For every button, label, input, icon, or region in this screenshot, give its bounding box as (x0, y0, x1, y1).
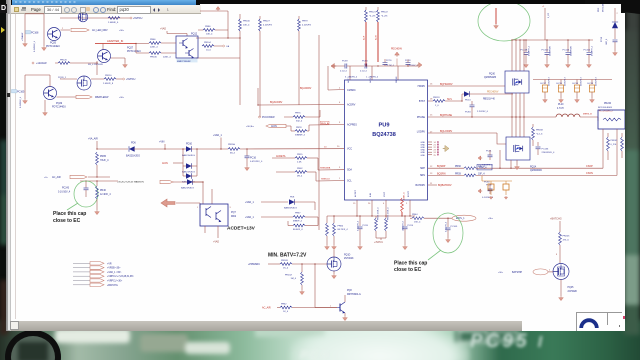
svg-text:PR110: PR110 (105, 75, 112, 77)
annotation Place this cap close to EC (394, 260, 427, 273)
ground (613, 51, 618, 56)
resistor PR76 (293, 110, 320, 123)
ground in ellipse (494, 8, 499, 29)
node +5VPCU (130, 17, 143, 20)
svg-text:QM3006D6: QM3006D6 (530, 170, 542, 172)
wire (96, 61, 97, 75)
wire CSOP (586, 129, 603, 168)
resistor PR86 (198, 11, 228, 38)
svg-text:PC16: PC16 (250, 157, 257, 160)
connector +VRPCU (73, 279, 123, 283)
capacitor PC33 (503, 181, 509, 195)
svg-text:+VAD_1: +VAD_1 (245, 201, 254, 204)
capacitor PC98 (601, 36, 618, 51)
ground (325, 236, 330, 250)
svg-text:PC30: PC30 (484, 182, 490, 184)
node ADAPTER_IN (107, 39, 123, 43)
wire (512, 117, 524, 137)
pin 18 (430, 99, 433, 101)
transistor pair PQ12 (176, 32, 198, 62)
svg-text:MER3_B: MER3_B (583, 114, 592, 116)
ground (43, 111, 48, 116)
ground (300, 290, 305, 295)
"D" watermark top-left (0, 4, 7, 13)
svg-text:PC243: PC243 (62, 188, 70, 190)
svg-text:0.1UF/V_4: 0.1UF/V_4 (592, 45, 594, 56)
svg-text:<30>: <30> (119, 96, 125, 99)
svg-text:PR168: PR168 (536, 130, 543, 132)
annotation ACDET=13V (227, 226, 256, 232)
node +PRWSRC (248, 263, 280, 266)
power arrow (216, 7, 220, 11)
svg-text:PQ8: PQ8 (347, 290, 352, 292)
svg-text:BQLODRV: BQLODRV (440, 130, 453, 133)
wire ACN (375, 22, 379, 62)
svg-text:SDA: SDA (347, 169, 352, 172)
wire BQSRP (428, 165, 603, 169)
node +VAD (213, 241, 219, 244)
svg-text:*2.2_6: *2.2_6 (536, 133, 543, 135)
resistor PR121 (365, 7, 377, 22)
wire (111, 58, 126, 63)
wire (44, 100, 46, 111)
svg-text:PC165: PC165 (17, 91, 25, 94)
svg-text:close to EC: close to EC (394, 267, 422, 273)
pin 11 (430, 183, 433, 185)
svg-text:2: 2 (617, 13, 619, 15)
resistor PR107 (285, 264, 304, 290)
svg-text:PC94: PC94 (465, 112, 471, 114)
svg-text:PC124: PC124 (563, 49, 570, 51)
svg-text:PC76: PC76 (386, 60, 392, 62)
svg-text:PQ1D: PQ1D (344, 254, 351, 256)
svg-text:+VIN: +VIN (159, 141, 165, 144)
svg-text:ACIN: ACIN (162, 162, 168, 165)
node PCCONSW (259, 116, 294, 119)
wire (61, 28, 71, 30)
svg-text:10K_4: 10K_4 (243, 24, 250, 26)
wire (202, 181, 212, 204)
diode PD3 (598, 3, 619, 39)
svg-text:CSON: CSON (586, 172, 593, 175)
wire (499, 150, 500, 169)
svg-text:MIN. BATV=7.2V: MIN. BATV=7.2V (268, 252, 307, 258)
node ACIN (162, 162, 183, 165)
wire (57, 96, 77, 98)
wire ACP (363, 22, 367, 66)
svg-text:25: 25 (434, 155, 437, 157)
svg-text:PR104: PR104 (204, 42, 211, 44)
svg-text:2.2U25V_0: 2.2U25V_0 (477, 111, 489, 113)
svg-text:4.22K/F4: 4.22K/F4 (263, 24, 273, 26)
svg-text:+VRPCU <30>: +VRPCU <30> (107, 280, 123, 283)
svg-text:1: 1 (330, 305, 332, 307)
capacitor EC15 (557, 76, 567, 98)
svg-text:220UF6.3: 220UF6.3 (581, 76, 583, 86)
svg-text:PC101: PC101 (584, 49, 591, 51)
svg-text:1MF50V_4: 1MF50V_4 (403, 220, 405, 231)
fan/coil black ring bottom-left of photo (5, 330, 61, 360)
svg-text:86.7K/F_4: 86.7K/F_4 (338, 229, 349, 231)
resistor PR58 (108, 17, 120, 24)
svg-text:PR22 100K_4: PR22 100K_4 (378, 207, 380, 220)
svg-text:PC3E: PC3E (486, 185, 492, 187)
svg-text:+3VPCU: +3VPCU (374, 242, 383, 244)
node SMBCLK (321, 179, 331, 181)
svg-text:3: 3 (339, 122, 341, 124)
wire (257, 88, 259, 105)
node +12VALW (32, 62, 47, 65)
svg-text:100NF50V: 100NF50V (571, 45, 573, 56)
pin 12 (430, 166, 433, 168)
ground (332, 271, 337, 279)
svg-text:PD10: PD10 (186, 143, 193, 146)
svg-text:PC59: PC59 (342, 61, 348, 63)
ground (587, 63, 592, 68)
transistor PQ8 (337, 290, 361, 316)
svg-text:1K_4: 1K_4 (283, 268, 289, 270)
svg-text:*0_2/5: *0_2/5 (369, 15, 376, 17)
capacitor PC168 (26, 31, 39, 53)
svg-text:BQ24738: BQ24738 (372, 132, 396, 138)
svg-text:PC24: PC24 (408, 225, 414, 227)
capacitor PC78 (397, 60, 419, 67)
transistor pair PQ7 (200, 204, 237, 226)
node +VAD (160, 28, 187, 36)
resistor PR242 (621, 133, 624, 158)
svg-text:HIDRV: HIDRV (418, 85, 426, 88)
svg-text:15: 15 (430, 115, 433, 117)
svg-text:0.1U_4: 0.1U_4 (360, 71, 368, 73)
svg-text:2_0: 2_0 (435, 105, 439, 107)
wire BQPHASE (428, 114, 524, 117)
svg-text:+12VALW: +12VALW (36, 62, 47, 65)
svg-text:1K_4: 1K_4 (283, 311, 289, 313)
svg-text:PC168: PC168 (31, 32, 39, 35)
diode PD8 (284, 197, 315, 210)
wire (511, 39, 524, 71)
wire (196, 57, 240, 59)
svg-text:475_6: 475_6 (563, 239, 570, 241)
node SMBDATA (320, 167, 331, 170)
svg-text:3: 3 (230, 207, 232, 209)
svg-text:2.4MUF_6: 2.4MUF_6 (108, 22, 119, 24)
svg-text:ACDRV: ACDRV (347, 104, 356, 107)
ground (123, 63, 128, 68)
svg-text:EHPL_1: EHPL_1 (456, 218, 465, 220)
svg-text:PQ26_1: PQ26_1 (58, 77, 67, 79)
wire (345, 66, 398, 80)
op-amp U1 PU9 BQ24738 (345, 76, 428, 200)
svg-text:6: 6 (383, 203, 385, 205)
diode PD13 (182, 166, 197, 184)
svg-text:SRN: SRN (420, 174, 425, 177)
ground (343, 316, 348, 321)
inductor PL20 (556, 104, 580, 117)
annotation MANSON (117, 181, 144, 184)
svg-text:220UF50V_4: 220UF50V_4 (542, 152, 556, 154)
svg-text:BATDRV: BATDRV (416, 184, 426, 187)
wire (196, 37, 241, 38)
svg-text:BQPHASE: BQPHASE (440, 114, 452, 117)
transistor PQ27 (98, 47, 142, 63)
svg-text:REGN: REGN (396, 76, 398, 83)
connector AC_LED_DRV (71, 28, 125, 32)
svg-text:10F_4: 10F_4 (478, 173, 485, 175)
wire MER3_B (580, 114, 598, 121)
capacitor PC20 (358, 215, 369, 245)
wire (257, 104, 344, 105)
svg-text:Place this cap: Place this cap (394, 260, 427, 266)
left grey strip + scrollbar (6, 0, 11, 331)
svg-text:+5VPCU: +5VPCU (126, 78, 136, 81)
svg-text:0.1UF/V_4: 0.1UF/V_4 (529, 45, 531, 56)
capacitor EC14 (573, 76, 583, 98)
connector +VR (73, 262, 112, 266)
svg-text:1: 1 (339, 178, 341, 180)
svg-text:BAS21HJDG: BAS21HJDG (181, 186, 194, 189)
capacitor EC13 (588, 76, 598, 98)
wire (328, 66, 344, 90)
svg-text:8: 8 (556, 254, 558, 256)
transistor PQ29 (44, 87, 67, 109)
capacitor PC105 in ellipse (433, 213, 463, 253)
svg-text:PR56: PR56 (338, 225, 344, 227)
svg-text:+5VPCU: +5VPCU (133, 17, 143, 20)
diode PD10 (182, 143, 228, 158)
svg-text:ACPRES: ACPRES (347, 124, 357, 127)
svg-text:BQBATDRV: BQBATDRV (438, 184, 452, 187)
pin 16 (430, 83, 433, 85)
connector ACIN (246, 124, 291, 128)
svg-text:2: 2 (549, 270, 551, 272)
svg-text:1: 1 (197, 207, 199, 209)
svg-text:2: 2 (339, 87, 341, 89)
svg-text:RC1206-R005: RC1206-R005 (598, 107, 613, 109)
svg-text:VCC: VCC (347, 148, 352, 151)
svg-text:PR122: PR122 (381, 12, 388, 14)
svg-text:2.43K/F_8: 2.43K/F_8 (103, 83, 114, 85)
svg-text:PR106: PR106 (150, 57, 157, 59)
svg-text:ACN: ACN (375, 35, 378, 40)
annotation Place this cap close to EC (53, 211, 86, 224)
wire (542, 6, 550, 40)
capacitor PC94 (465, 101, 489, 118)
toolbar (11, 5, 201, 14)
svg-text:68_4: 68_4 (230, 153, 236, 155)
pin 1 (197, 207, 199, 209)
svg-text:9: 9 (339, 167, 341, 169)
node BUB (447, 99, 452, 101)
svg-text:0.47U25V_0: 0.47U25V_0 (250, 161, 263, 163)
svg-text:ADAPTER_IN: ADAPTER_IN (107, 39, 123, 43)
svg-text:2N7002K: 2N7002K (568, 291, 578, 293)
svg-text:698KF_4: 698KF_4 (293, 221, 303, 223)
svg-text:PC136: PC136 (542, 148, 549, 150)
svg-text:+BATCHG: +BATCHG (107, 284, 118, 287)
svg-text:15K_4: 15K_4 (414, 222, 421, 224)
svg-text:SMBCLK: SMBCLK (321, 179, 331, 181)
svg-text:ACP: ACP (363, 35, 366, 40)
svg-text:PQ12: PQ12 (191, 32, 198, 35)
annotation line (428, 250, 441, 260)
ground (566, 63, 571, 68)
svg-text:BAS21HJDG: BAS21HJDG (182, 154, 195, 157)
svg-text:4.7UH: 4.7UH (557, 108, 564, 110)
svg-text:BAS21HJDG: BAS21HJDG (126, 155, 140, 158)
svg-text:LODRV: LODRV (417, 131, 426, 134)
svg-text:220UF6.3: 220UF6.3 (549, 76, 551, 86)
highlight ellipse (478, 1, 530, 41)
svg-text:ACIN: ACIN (271, 125, 277, 128)
svg-text:17: 17 (430, 132, 433, 134)
wire bus (512, 39, 593, 41)
svg-text:+VRSB <30>: +VRSB <30> (107, 267, 121, 270)
svg-text:CMSRC: CMSRC (347, 89, 356, 92)
svg-text:PC98: PC98 (601, 36, 603, 42)
node RUN_A (320, 121, 329, 125)
svg-text:2: 2 (62, 28, 64, 30)
svg-text:+VAD_1: +VAD_1 (245, 216, 254, 219)
svg-text:PR79: PR79 (302, 21, 308, 23)
svg-text:PR78: PR78 (296, 127, 302, 129)
svg-text:M0TP0904-G: M0TP0904-G (347, 294, 361, 296)
node REF_4 (477, 165, 492, 170)
svg-text:PD3: PD3 (598, 7, 600, 12)
annotation line (67, 203, 78, 210)
schematic frame border (15, 13, 17, 319)
svg-text:BATSHIP: BATSHIP (512, 271, 522, 274)
resistor PR35 (385, 207, 390, 238)
connector MBATLEDW (76, 95, 125, 99)
resistor PR66 (135, 39, 176, 53)
resistor PR79 (298, 16, 312, 105)
svg-text:PL20: PL20 (558, 104, 564, 106)
wire (25, 14, 44, 42)
svg-text:ACDET=13V: ACDET=13V (227, 226, 256, 232)
svg-text:86.6KF_4: 86.6KF_4 (293, 229, 303, 231)
capacitor PC31 (482, 150, 493, 166)
svg-text:332_4: 332_4 (296, 121, 303, 123)
status bar (11, 321, 522, 331)
svg-text:CSOP: CSOP (586, 165, 593, 168)
resistor PR119 (428, 97, 463, 107)
svg-text:PR66: PR66 (150, 39, 156, 41)
resistor PR169 (280, 260, 327, 270)
svg-text:0R_4: 0R_4 (297, 176, 303, 178)
pin 3 (230, 207, 232, 209)
svg-text:Place this cap: Place this cap (53, 211, 86, 217)
svg-text:+BATCHG: +BATCHG (550, 218, 562, 221)
svg-text:ACN: ACN (369, 78, 372, 83)
ground (42, 46, 47, 51)
resistor PR22 (375, 207, 380, 238)
wire (25, 75, 50, 99)
capacitor PC24 (403, 215, 414, 245)
svg-text:PR44: PR44 (412, 214, 418, 216)
node PECHGAV (391, 48, 403, 51)
resistor PR78 (291, 125, 344, 137)
power arrow (161, 199, 175, 207)
diode PD14 (462, 91, 513, 101)
svg-text:PC100: PC100 (542, 49, 549, 51)
capacitor PC165 (12, 90, 25, 109)
node ACDETA (276, 155, 286, 158)
svg-text:+1: +1 (542, 6, 545, 8)
svg-text:PR119: PR119 (433, 97, 440, 99)
svg-text:20: 20 (337, 146, 340, 148)
svg-text:19: 19 (353, 203, 356, 205)
capacitor PC3E (486, 184, 493, 194)
svg-text:PR121: PR121 (369, 12, 376, 14)
svg-text:13: 13 (430, 173, 433, 175)
wire (60, 17, 130, 19)
wire (182, 148, 197, 166)
svg-text:PC31: PC31 (486, 151, 492, 153)
node BQVCC (324, 147, 327, 149)
ground (245, 166, 250, 171)
resistor PR104 (202, 42, 230, 52)
yellow bookmark arrow (1, 27, 5, 33)
svg-text:PR67: PR67 (295, 213, 301, 215)
wire (511, 93, 524, 118)
resistor PR11A (228, 143, 344, 155)
svg-text:PR05: PR05 (100, 155, 107, 158)
svg-text:11: 11 (430, 183, 433, 185)
connector AC_AIR (44, 175, 87, 179)
svg-text:1 +UADRV_4: 1 +UADRV_4 (366, 76, 379, 79)
capacitor PC136 (536, 142, 556, 155)
svg-text:PR241: PR241 (611, 140, 618, 142)
svg-text:26: 26 (368, 203, 371, 205)
resistor PR46 (96, 181, 112, 210)
wire (482, 176, 512, 181)
svg-text:PR169: PR169 (281, 260, 288, 262)
svg-text:PR35 100K_4: PR35 100K_4 (388, 207, 390, 220)
svg-text:ACP: ACP (347, 78, 350, 83)
svg-text:+VAD: +VAD (160, 28, 166, 31)
svg-text:GND: GND (421, 155, 426, 157)
resistor PR05 (96, 152, 110, 165)
node +VIN (159, 141, 166, 150)
pin 3 (339, 122, 341, 124)
svg-text:+VAD_1 <30>: +VAD_1 <30> (107, 271, 122, 274)
pin 9 (339, 167, 341, 169)
wire (43, 14, 45, 46)
svg-text:ACSET: ACSET (354, 189, 357, 197)
pin 2 (339, 87, 341, 89)
wire CSON (586, 129, 617, 175)
svg-text:PU9: PU9 (378, 123, 389, 129)
svg-text:<0>: <0> (44, 176, 48, 179)
svg-text:FL_D51-R5_2: FL_D51-R5_2 (599, 111, 614, 113)
wire (163, 148, 183, 150)
wire (80, 180, 118, 181)
ground (95, 210, 100, 215)
svg-text:BAS21HJDG: BAS21HJDG (182, 171, 195, 174)
node AC_AIR (262, 307, 271, 310)
capacitor PC101 (584, 39, 594, 63)
svg-text:ILIM: ILIM (370, 193, 372, 197)
svg-text:PR225: PR225 (563, 236, 570, 238)
svg-text:PQ2A: PQ2A (530, 166, 537, 169)
svg-text:MD2: MD2 (231, 215, 237, 218)
svg-text:SUS: SUS (447, 99, 452, 101)
wire (510, 160, 511, 169)
svg-text:+PRWSRC: +PRWSRC (248, 263, 260, 266)
node BQACDRV (270, 101, 283, 104)
capacitor PC30 (482, 181, 494, 199)
